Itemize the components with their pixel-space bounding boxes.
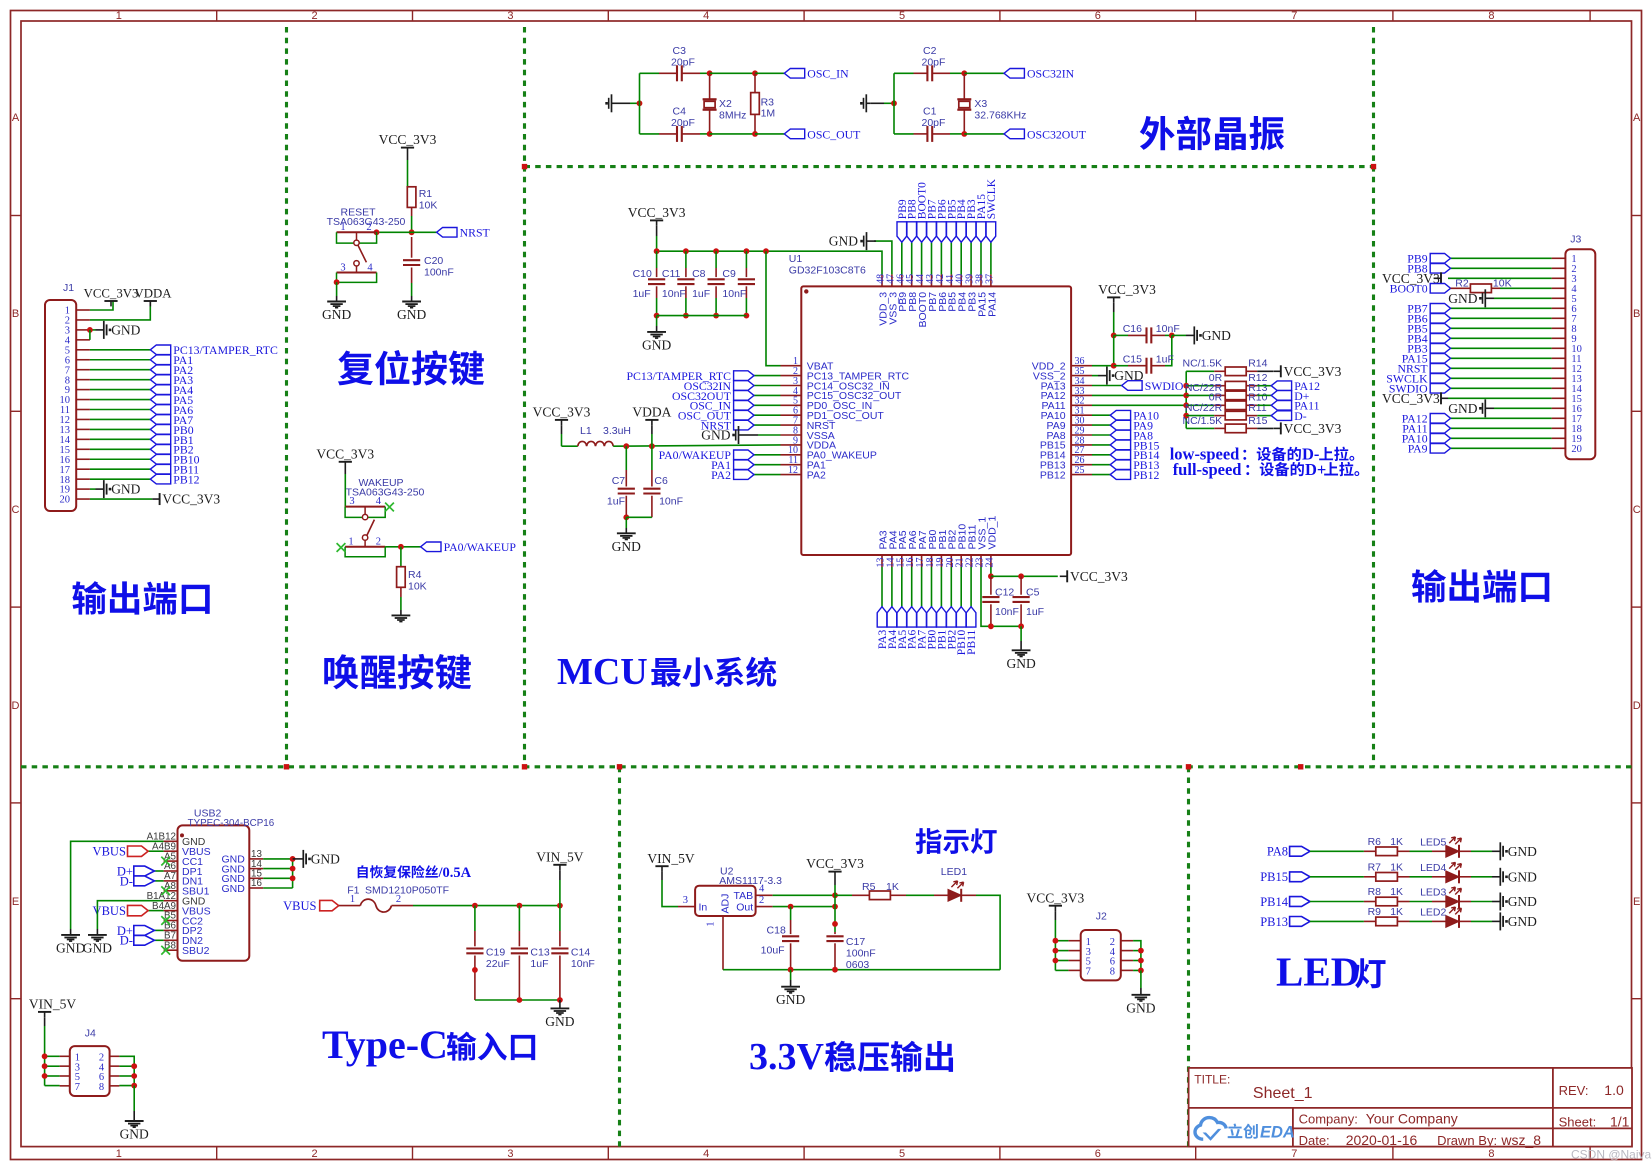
title block REV xyxy=(1559,1082,1624,1098)
wire PB13 to R9 xyxy=(1310,920,1364,922)
svg-text:OSC_OUT: OSC_OUT xyxy=(807,127,861,141)
svg-text:NRST: NRST xyxy=(460,226,491,240)
svg-text:4: 4 xyxy=(376,496,382,507)
svg-text:4: 4 xyxy=(367,263,373,274)
net flag BOOT0 at J3.4 xyxy=(1390,282,1451,296)
junction RESET pin3 to GND xyxy=(334,279,340,285)
title block Sheet 1/1 xyxy=(1559,1113,1630,1129)
wire R9 to LED2 xyxy=(1410,920,1446,922)
USB2 left pins xyxy=(147,832,211,958)
svg-text:7: 7 xyxy=(1291,10,1297,22)
junction J4.8 xyxy=(131,1083,137,1089)
svg-text:L1: L1 xyxy=(580,425,592,437)
svg-text:U1: U1 xyxy=(789,253,803,265)
svg-text:GND: GND xyxy=(545,1014,574,1029)
net flag PB0 (MCU bottom) xyxy=(927,607,939,650)
wire U1 VSS_2 to GND xyxy=(1092,375,1107,377)
svg-text:2: 2 xyxy=(312,10,318,22)
power flag VCC_3V3 above C16 xyxy=(1098,282,1156,303)
wire J1.9 xyxy=(90,389,150,391)
svg-text:SWCLK: SWCLK xyxy=(986,178,998,219)
net flag D+ (USB) xyxy=(1271,389,1310,403)
wire J1.10 xyxy=(90,399,150,401)
svg-text:GND: GND xyxy=(1126,1000,1155,1015)
junction USB2 gnd 13 xyxy=(290,856,296,862)
junction USB2 gnd 14 xyxy=(290,866,296,872)
svg-text:2020-01-16: 2020-01-16 xyxy=(1346,1132,1418,1148)
wire R11 to flag D- xyxy=(1257,415,1271,417)
svg-text:C8: C8 xyxy=(692,268,706,280)
capacitor C11 xyxy=(662,251,695,315)
power net flag VBUS at F1 xyxy=(283,899,339,913)
svg-text:10uF: 10uF xyxy=(761,945,785,957)
svg-text:1: 1 xyxy=(116,1148,122,1160)
wire C16 to GND xyxy=(1172,334,1195,336)
net flag PA9 at J3.20 xyxy=(1408,442,1451,456)
inductor L1 3.3uH xyxy=(578,425,631,446)
wire U1 pin29 to flag xyxy=(1092,434,1110,436)
net flag PA1 at U1 pin11 xyxy=(711,458,754,472)
net flag PA15 (MCU top) xyxy=(976,194,988,242)
section title 指示灯 xyxy=(916,828,997,854)
junction C9 bottom xyxy=(744,313,750,319)
svg-text:R6: R6 xyxy=(1368,836,1382,848)
junction C17 bottom xyxy=(832,967,838,973)
net flag OSC_OUT at U1 pin6 xyxy=(678,409,754,423)
wire flag to U1 pin3 xyxy=(754,385,781,387)
svg-text:J2: J2 xyxy=(1096,910,1107,922)
svg-text:VCC_3V3: VCC_3V3 xyxy=(1027,890,1085,905)
net flag OSC_OUT xyxy=(784,127,861,141)
fuse F1 xyxy=(339,894,413,912)
power flag VCC_3V3 at U2 xyxy=(806,856,864,877)
ground GND below C7 xyxy=(612,533,641,554)
wire U1 pin21 to flag xyxy=(960,567,962,607)
junction OSC32OUT at X3 bottom xyxy=(961,131,967,137)
svg-text:10K: 10K xyxy=(408,580,427,592)
wire to OSC32IN flag xyxy=(964,72,1004,74)
net flag PA3 at J1.8 xyxy=(150,373,193,387)
junction C7 bottom xyxy=(623,514,629,520)
svg-text:3: 3 xyxy=(683,895,688,906)
wire PA8 to R6 xyxy=(1310,850,1364,852)
wire VIN_5V to U2 In xyxy=(662,872,678,907)
resistor R5 1K xyxy=(835,881,906,900)
svg-text:REV:: REV: xyxy=(1559,1083,1589,1098)
power flag VCC_3V3 at J1.20 xyxy=(152,492,220,507)
capacitor C17 100nF 0603 xyxy=(826,932,875,971)
wire U1 pin20 to flag xyxy=(950,567,952,607)
LED LED4 xyxy=(1420,862,1461,884)
svg-text:Out: Out xyxy=(736,902,753,914)
svg-text:1M: 1M xyxy=(761,108,776,120)
wire VIN_5V to J4 bus xyxy=(44,1017,46,1085)
wire X2 gnd to rail xyxy=(616,102,640,104)
ground GND below C5 xyxy=(1006,650,1035,671)
wire J3.7 xyxy=(1451,317,1552,319)
svg-text:20pF: 20pF xyxy=(922,57,946,69)
wire J3.10 xyxy=(1451,347,1552,349)
svg-text:full-speed: full-speed xyxy=(1173,460,1242,479)
section corner junction markers xyxy=(284,164,1376,770)
svg-text:NC/1.5K: NC/1.5K xyxy=(1183,415,1223,427)
wire R2 to J3.4 xyxy=(1500,287,1552,289)
crystal X2 8MHz xyxy=(703,73,747,134)
wire U1 pin18 to flag xyxy=(931,567,933,607)
net flag PA0/WAKEUP xyxy=(421,540,517,554)
svg-text:1uF: 1uF xyxy=(530,958,548,970)
junction C8 bottom xyxy=(713,313,719,319)
svg-text:4: 4 xyxy=(703,1148,709,1160)
svg-text:3: 3 xyxy=(507,1148,513,1160)
wire J3.12 xyxy=(1451,367,1552,369)
junction bus R10 xyxy=(1183,402,1189,408)
junction C12 bottom xyxy=(988,623,994,629)
net flag OSC_IN xyxy=(784,67,849,81)
LED LED5 xyxy=(1420,836,1461,858)
ground GND at J1.19 xyxy=(104,480,141,498)
svg-text:C3: C3 xyxy=(673,45,687,57)
wire LED1 cathode loop xyxy=(976,895,1000,969)
ground GND below C14 xyxy=(545,1008,574,1029)
wire J1.8 xyxy=(90,379,150,381)
svg-text:1: 1 xyxy=(340,222,345,233)
resistor R9 1K xyxy=(1364,906,1410,926)
svg-text:VDD_1: VDD_1 xyxy=(986,515,998,549)
logo LCEDA cloud xyxy=(1195,1118,1226,1141)
wire J1.3 to GND xyxy=(90,329,104,331)
LED LED2 xyxy=(1420,906,1461,928)
wire D- flag to USB2 xyxy=(154,880,163,882)
svg-text:2: 2 xyxy=(759,895,764,906)
junction C16 left xyxy=(1111,333,1117,339)
svg-text:7: 7 xyxy=(1291,1148,1297,1160)
svg-text:6: 6 xyxy=(1095,10,1101,22)
power text VCC_3V3 at J3.3 xyxy=(1382,271,1440,286)
svg-text:7: 7 xyxy=(75,1082,80,1093)
wire USB2 GND2 to ground xyxy=(97,901,163,935)
wire U1 pin19 to flag xyxy=(940,567,942,607)
capacitor C19 22uF xyxy=(466,906,510,1000)
svg-text:/0.5A: /0.5A xyxy=(438,865,472,881)
no-connect X at USB2 CC2 xyxy=(161,916,170,925)
LED LED3 xyxy=(1420,887,1461,909)
svg-text:C6: C6 xyxy=(654,475,668,487)
power flag VCC_3V3 right of C5 xyxy=(1060,569,1128,584)
net flag PA5 (MCU bottom) xyxy=(897,607,909,649)
ground GND below RESET xyxy=(322,302,351,323)
wire U1 VDD_2 to C15 node xyxy=(1092,335,1114,365)
svg-text:Sheet_1: Sheet_1 xyxy=(1253,1085,1313,1102)
capacitor C18 10uF xyxy=(761,907,800,970)
power flag VCC_3V3 above WAKEUP xyxy=(316,446,374,467)
wire U1 pin17 to flag xyxy=(921,567,923,607)
section title 唤醒按键 xyxy=(324,654,471,690)
wire U2 Out to node xyxy=(773,906,835,908)
wire J3.18 xyxy=(1451,427,1552,429)
net flag D+ at USB2 xyxy=(117,924,155,938)
USB connector USB2 TYPEC-304-BCP16 outline xyxy=(178,808,275,961)
power flag VCC_3V3 at R15 xyxy=(1273,421,1341,436)
svg-text:10nF: 10nF xyxy=(722,288,746,300)
section title LED灯 xyxy=(1276,949,1386,995)
title block Date Drawn By xyxy=(1299,1132,1542,1148)
wire VCC node down to C17 xyxy=(834,895,836,932)
svg-text:12: 12 xyxy=(788,465,798,476)
wire C2 to OSC32IN node xyxy=(950,72,964,74)
ground (signal) left of X3 xyxy=(860,94,871,112)
svg-text:PB12: PB12 xyxy=(1133,468,1159,482)
section title 3.3V稳压输出 xyxy=(749,1036,953,1078)
net flag SWDIO at J3.14 xyxy=(1389,382,1451,396)
wire bus to R13 xyxy=(1186,394,1214,396)
svg-text:C13: C13 xyxy=(530,947,549,959)
junction C9 top xyxy=(744,248,750,254)
wire C6 to C7 gnd xyxy=(626,516,652,518)
svg-text:GND: GND xyxy=(1508,869,1537,884)
wire OSC_OUT node to R3 bottom xyxy=(710,133,755,135)
resistor R7 1K xyxy=(1364,861,1410,881)
wire X2 left rail xyxy=(639,73,641,134)
svg-text:1K: 1K xyxy=(1390,906,1403,918)
watermark CSDN xyxy=(1571,1148,1652,1162)
junction J4.1 xyxy=(42,1053,48,1059)
svg-text:3.3V: 3.3V xyxy=(749,1036,825,1078)
ground (signal) left of X2 xyxy=(605,94,616,112)
wire J1.1 to VCC_3V3 xyxy=(90,301,113,310)
wire J1.20 to VCC_3V3 xyxy=(90,498,152,500)
resistor R14 NC/1.5K xyxy=(1183,358,1268,376)
section divider dashed line vertical x=1374 xyxy=(1372,27,1375,767)
svg-text:VDDA: VDDA xyxy=(632,405,671,420)
wire WAKEUP pin2 to PA0 flag xyxy=(385,546,420,548)
svg-text:GND: GND xyxy=(701,428,730,443)
svg-text:VIN_5V: VIN_5V xyxy=(536,849,583,864)
net flag PB3 (MCU top) xyxy=(966,199,978,242)
svg-text:Company:: Company: xyxy=(1299,1112,1358,1127)
capacitor C16 10nF xyxy=(1114,323,1180,343)
junction OSC32IN at X3 top xyxy=(961,70,967,76)
svg-text:1K: 1K xyxy=(886,881,899,893)
wire U1 pin38 to flag xyxy=(980,242,982,274)
section divider dashed line vertical x=1188 xyxy=(1187,767,1190,1147)
wire U1 pin27 to flag xyxy=(1092,454,1110,456)
net flag PB15 (LED row) xyxy=(1260,870,1310,884)
svg-text:PB13: PB13 xyxy=(1260,915,1288,929)
svg-text:GND: GND xyxy=(1202,328,1231,343)
no-connect X at USB2 SBU2 xyxy=(161,946,170,955)
net flag PB6 at J3.7 xyxy=(1407,312,1450,326)
wire VIN_5V down xyxy=(559,870,561,905)
wire C3 to OSC_IN node xyxy=(700,72,710,74)
power flag VCC_3V3 above R1 xyxy=(379,132,437,153)
svg-text:1.0: 1.0 xyxy=(1604,1082,1624,1098)
capacitor C5 xyxy=(1013,576,1045,626)
junction C17 stub xyxy=(832,921,838,927)
no-connect X at USB2 CC1 xyxy=(161,857,170,866)
junction J2.1 xyxy=(1053,938,1059,944)
svg-text:In: In xyxy=(699,902,708,914)
wire J3.5 xyxy=(1494,297,1552,299)
wire F1 to VIN rail xyxy=(413,905,560,907)
net flag PB5 (MCU top) xyxy=(946,199,958,242)
svg-text:C20: C20 xyxy=(424,255,443,267)
ground GND below J4 xyxy=(120,1121,149,1142)
wire VCC_3V3 to L1 xyxy=(562,425,578,446)
push-button WAKEUP TSA063G43-250 xyxy=(345,477,424,557)
wire gnd rail to GND xyxy=(790,970,792,987)
section divider dashed line horizontal y=167 xyxy=(525,165,1374,168)
wire VSSA to GND xyxy=(746,434,781,436)
net flag PB11 (MCU bottom) xyxy=(966,607,978,655)
ground GND left2 xyxy=(83,935,112,956)
svg-text:EDA: EDA xyxy=(1260,1123,1295,1141)
wire RESET pin3 to GND xyxy=(336,282,338,301)
net flag D+ at USB2 xyxy=(117,864,155,878)
svg-text:10nF: 10nF xyxy=(995,606,1019,618)
wire J1.18 xyxy=(90,478,150,480)
wire J3.8 xyxy=(1451,327,1552,329)
junction C6/VDDA top xyxy=(649,443,655,449)
net flag PB7 at J3.6 xyxy=(1407,302,1450,316)
net flag PB7 (MCU top) xyxy=(927,199,939,242)
wire flag to U1 pin11 xyxy=(754,464,781,466)
connector J1 pins 1-20 xyxy=(60,306,90,506)
svg-text:3.3uH: 3.3uH xyxy=(603,425,631,437)
wire X3 gnd to rail xyxy=(871,102,894,104)
svg-text:D: D xyxy=(1633,700,1641,712)
svg-text:Type-C: Type-C xyxy=(322,1022,448,1067)
net flag PA4 at J1.9 xyxy=(150,383,193,397)
wire U1 pin44 to flag xyxy=(921,242,923,274)
wire J1.11 xyxy=(90,409,150,411)
svg-text:PB12: PB12 xyxy=(173,473,199,487)
svg-text:GND: GND xyxy=(776,992,805,1007)
svg-text:8: 8 xyxy=(1488,1148,1494,1160)
svg-text:VCC_3V3: VCC_3V3 xyxy=(1382,391,1440,406)
wire X2 bottom rail xyxy=(640,133,660,135)
wire J1.17 xyxy=(90,468,150,470)
resistor R8 1K xyxy=(1364,886,1410,906)
wire X2 top rail xyxy=(640,72,660,74)
note full-speed xyxy=(1173,460,1360,479)
svg-text:C4: C4 xyxy=(673,106,687,118)
wire J3.19 xyxy=(1451,437,1552,439)
svg-text:3: 3 xyxy=(507,10,513,22)
wire U1 pin25 to flag xyxy=(1092,474,1110,476)
svg-text:VCC_3V3: VCC_3V3 xyxy=(162,492,220,507)
svg-text:GND: GND xyxy=(111,323,140,338)
net flag PB4 at J3.9 xyxy=(1407,332,1450,346)
svg-text:20pF: 20pF xyxy=(671,57,695,69)
net flag SWCLK (MCU top) xyxy=(986,178,998,242)
svg-text:wsz_8: wsz_8 xyxy=(1500,1132,1541,1148)
wire U1 VDD_1 to VCC rail xyxy=(990,567,992,576)
net flag PB2 (MCU bottom) xyxy=(946,607,958,650)
svg-text:25: 25 xyxy=(1075,465,1085,476)
svg-text:SWDIO: SWDIO xyxy=(1145,379,1184,393)
svg-text:1uF: 1uF xyxy=(633,288,651,300)
wire U1 pin15 to flag xyxy=(901,567,903,607)
net flag PB8 (MCU top) xyxy=(907,199,919,242)
net flag PB9 (MCU top) xyxy=(897,199,909,242)
svg-text:32.768KHz: 32.768KHz xyxy=(974,109,1026,121)
capacitor C14 10nF xyxy=(551,906,595,1000)
net flag PB10 at J1.16 xyxy=(150,453,199,467)
svg-text:E: E xyxy=(1633,896,1640,908)
svg-text:2: 2 xyxy=(366,222,371,233)
section divider dashed line vertical x=524 xyxy=(523,27,526,767)
connector J2 pins xyxy=(1068,937,1133,978)
svg-text:ADJ: ADJ xyxy=(720,894,732,914)
svg-text:VCC_3V3: VCC_3V3 xyxy=(379,132,437,147)
svg-text:1K: 1K xyxy=(1390,861,1403,873)
section divider dashed line vertical x=286 xyxy=(285,27,288,767)
svg-text:1K: 1K xyxy=(1390,886,1403,898)
wire R8 to LED3 xyxy=(1410,901,1446,903)
wire VCC_3V3 to R1 xyxy=(407,153,409,187)
junction J4.5 xyxy=(42,1073,48,1079)
net flag PB0 at J1.13 xyxy=(150,423,193,437)
wire J4 left bus xyxy=(45,1056,60,1085)
svg-text:Sheet:: Sheet: xyxy=(1559,1114,1597,1129)
wire U2 ADJ to gnd rail xyxy=(723,930,1000,970)
net flag PA7 (MCU bottom) xyxy=(917,607,929,649)
wire C1 to OSC32OUT node xyxy=(950,133,964,135)
wire J1.7 xyxy=(90,369,150,371)
svg-text:J4: J4 xyxy=(85,1027,96,1039)
svg-text:GND: GND xyxy=(1448,401,1477,416)
net flag PA1 at J1.6 xyxy=(150,353,193,367)
wire R13 to flag D+ xyxy=(1257,394,1271,396)
junction C7 top xyxy=(623,443,629,449)
power flag VCC_3V3 at J3.15 xyxy=(1382,391,1441,406)
junction C10 top xyxy=(654,248,660,254)
junction C11 bottom xyxy=(683,313,689,319)
junction USB2 gnd 15 xyxy=(290,875,296,881)
svg-text:D-: D- xyxy=(1294,409,1307,423)
svg-text:TYPEC-304-BCP16: TYPEC-304-BCP16 xyxy=(188,818,275,829)
wire X3 top rail xyxy=(894,72,914,74)
resistor R4 xyxy=(397,567,427,593)
wire D- flag to USB2 xyxy=(154,939,163,941)
svg-text:3: 3 xyxy=(349,496,354,507)
net flag PB13 (LED row) xyxy=(1260,915,1310,929)
net flag PA15 at J3.11 xyxy=(1402,352,1451,366)
net flag SWCLK at J3.13 xyxy=(1386,372,1450,386)
net flag BOOT0 (MCU top) xyxy=(917,182,929,242)
wire cap gnd rail xyxy=(475,999,560,1001)
capacitor C1 xyxy=(914,106,951,142)
wire J3.11 xyxy=(1451,357,1552,359)
net flag PB15 (MCU right) xyxy=(1110,438,1159,452)
svg-text:20pF: 20pF xyxy=(671,117,695,129)
wire gnd rail to GND xyxy=(559,1000,561,1008)
svg-text:C10: C10 xyxy=(633,268,652,280)
LED LED1 xyxy=(941,866,976,902)
power flag VIN_5V at F1 rail xyxy=(536,849,583,870)
wire J3.20 xyxy=(1451,447,1552,449)
wire C4 to OSC_OUT node xyxy=(700,133,710,135)
wire J1.19 to GND xyxy=(90,488,104,490)
svg-text:Your Company: Your Company xyxy=(1366,1111,1458,1127)
wire R14 to VCC xyxy=(1257,370,1273,372)
wire bus to R11 xyxy=(1186,415,1214,417)
net flag D- at USB2 xyxy=(120,874,155,888)
svg-text:GND: GND xyxy=(56,940,85,955)
junction J2.5 xyxy=(1053,958,1059,964)
svg-text:C: C xyxy=(12,504,20,516)
